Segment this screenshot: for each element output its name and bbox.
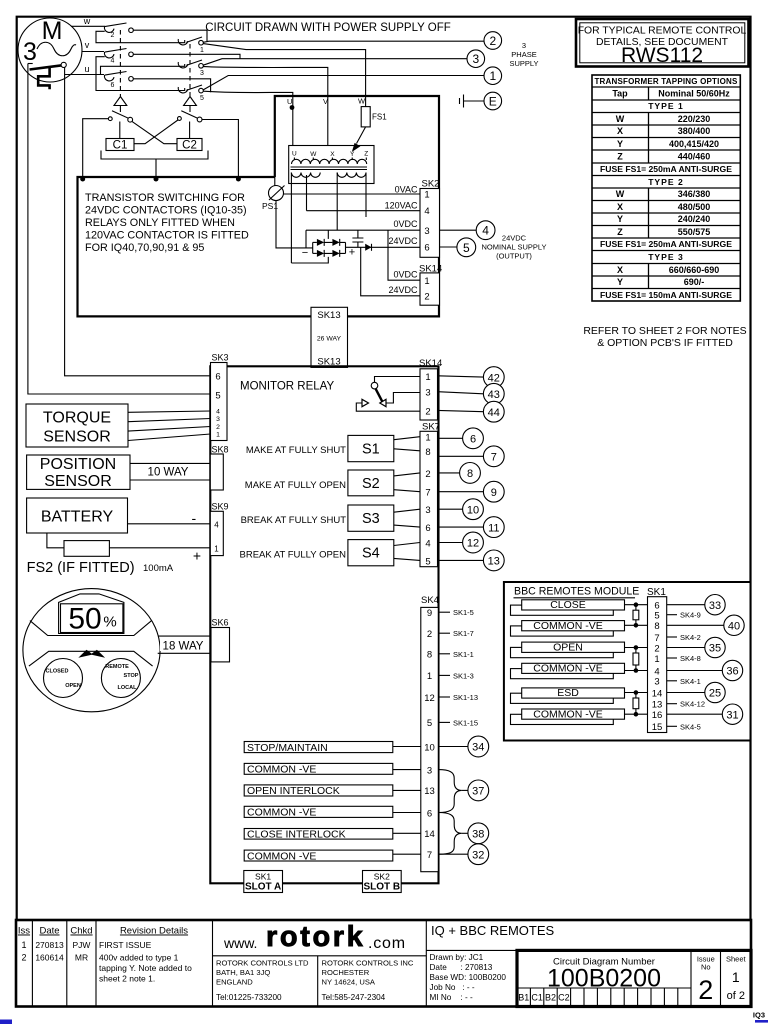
svg-text:TRANSFORMER TAPPING OPTIONS: TRANSFORMER TAPPING OPTIONS bbox=[594, 77, 737, 86]
svg-text:Job No : - -: Job No : - - bbox=[430, 983, 475, 992]
relay contact right bbox=[178, 117, 182, 121]
svg-text:SLOT A: SLOT A bbox=[245, 882, 281, 893]
svg-text:OPEN INTERLOCK: OPEN INTERLOCK bbox=[247, 785, 340, 797]
wire to terminal 10 bbox=[438, 508, 463, 510]
title block outer bbox=[16, 920, 751, 1007]
svg-text:(OUTPUT): (OUTPUT) bbox=[496, 252, 532, 261]
svg-text:400v added to type 1: 400v added to type 1 bbox=[99, 953, 179, 963]
junction dot U feed bbox=[290, 105, 295, 110]
fuse FS2 bbox=[64, 541, 109, 557]
svg-text:1: 1 bbox=[424, 190, 429, 201]
blue corner marks bbox=[0, 1020, 12, 1024]
svg-text:FS2 (IF FITTED): FS2 (IF FITTED) bbox=[27, 560, 135, 576]
svg-text:9: 9 bbox=[491, 487, 497, 499]
svg-text:Date : 270813: Date : 270813 bbox=[430, 963, 493, 972]
svg-text:6: 6 bbox=[215, 372, 220, 383]
svg-text:MAKE AT FULLY OPEN: MAKE AT FULLY OPEN bbox=[245, 480, 346, 491]
wire contact2 output jog bbox=[133, 30, 207, 41]
svg-text:34: 34 bbox=[472, 742, 484, 754]
bus under coils bbox=[101, 151, 208, 160]
wire switch1 to terminal 2 bbox=[203, 41, 484, 42]
svg-text:S4: S4 bbox=[362, 546, 380, 562]
transistor / power-supply box outline bbox=[78, 96, 440, 316]
svg-text:18 WAY: 18 WAY bbox=[163, 640, 204, 652]
svg-text:32: 32 bbox=[472, 849, 484, 861]
svg-text:2: 2 bbox=[654, 643, 659, 654]
svg-text:SK4-1: SK4-1 bbox=[680, 677, 701, 686]
10 way wires bbox=[130, 463, 210, 480]
svg-text:4: 4 bbox=[424, 206, 429, 217]
terminal circle 4 bbox=[476, 221, 495, 240]
wire to terminal 31 bbox=[667, 713, 723, 715]
svg-text:5: 5 bbox=[215, 391, 220, 402]
wire u phase bbox=[65, 74, 104, 76]
svg-text:8: 8 bbox=[654, 621, 659, 632]
svg-text:of 2: of 2 bbox=[727, 990, 745, 1002]
terminal circle 37 bbox=[468, 780, 489, 801]
contactor switch 3 bbox=[178, 62, 188, 68]
svg-text:400,415/420: 400,415/420 bbox=[669, 139, 719, 149]
svg-text:X: X bbox=[617, 202, 623, 212]
svg-text:50: 50 bbox=[68, 603, 101, 636]
svg-text:PHASE: PHASE bbox=[511, 50, 536, 59]
svg-text:10: 10 bbox=[424, 742, 435, 753]
svg-text:+: + bbox=[193, 548, 201, 564]
svg-text:8: 8 bbox=[467, 468, 473, 480]
svg-text:SK1-1: SK1-1 bbox=[453, 650, 474, 659]
svg-text:44: 44 bbox=[488, 407, 500, 419]
svg-text:+: + bbox=[349, 247, 355, 259]
contactor switch 6 bbox=[104, 75, 114, 81]
wire from lever circle to SK3 pin 6 bbox=[65, 68, 211, 376]
brace pins 3-6 bbox=[438, 770, 462, 813]
svg-text:COMMON -VE: COMMON -VE bbox=[533, 663, 602, 675]
svg-text:%: % bbox=[103, 614, 116, 631]
svg-text:PJW: PJW bbox=[73, 940, 91, 950]
svg-text:3: 3 bbox=[23, 38, 37, 66]
wire to terminal 12 bbox=[438, 542, 463, 544]
svg-text:10: 10 bbox=[467, 504, 479, 516]
svg-text:COMMON -VE: COMMON -VE bbox=[247, 850, 316, 862]
svg-text:SK4: SK4 bbox=[421, 595, 439, 606]
svg-text:Tel:585-247-2304: Tel:585-247-2304 bbox=[322, 993, 386, 1002]
wire contact6 output to transformer U bbox=[133, 79, 210, 92]
svg-text:7: 7 bbox=[425, 488, 430, 499]
actuator display dial ellipse bbox=[23, 589, 160, 712]
svg-text:IQ + BBC REMOTES: IQ + BBC REMOTES bbox=[431, 923, 554, 938]
svg-text:12: 12 bbox=[424, 693, 435, 704]
svg-text:FUSE FS1= 250mA ANTI-SURGE: FUSE FS1= 250mA ANTI-SURGE bbox=[600, 164, 732, 174]
svg-text:S2: S2 bbox=[362, 476, 380, 492]
FS1 fuse bbox=[361, 107, 370, 127]
svg-text:ENGLAND: ENGLAND bbox=[216, 978, 253, 987]
svg-text:B1: B1 bbox=[518, 993, 529, 1003]
bias resistor bbox=[635, 693, 637, 715]
svg-text:1: 1 bbox=[427, 671, 432, 682]
terminal circle 42 bbox=[483, 367, 504, 388]
wire switch5 to terminal 1 bbox=[203, 76, 484, 90]
svg-text:1: 1 bbox=[21, 940, 26, 950]
svg-text:X: X bbox=[617, 126, 623, 136]
svg-text:TYPE 3: TYPE 3 bbox=[648, 252, 684, 262]
terminal circle 7 bbox=[483, 446, 504, 467]
svg-text:24VDC: 24VDC bbox=[388, 285, 418, 295]
svg-text:4: 4 bbox=[216, 409, 220, 416]
wire SK2 pin6 to terminal 5 bbox=[440, 246, 457, 248]
terminal circle 6 bbox=[463, 428, 484, 449]
contactor switch 5 bbox=[178, 87, 188, 93]
bracket joining contacts 2-1 bbox=[96, 31, 185, 42]
RWS112 note box bbox=[576, 19, 749, 67]
svg-text:LOCAL: LOCAL bbox=[118, 685, 138, 691]
svg-text:550/575: 550/575 bbox=[678, 227, 711, 237]
svg-text:1: 1 bbox=[200, 47, 204, 54]
svg-text:SK1-5: SK1-5 bbox=[453, 608, 474, 617]
wire to terminal 13 bbox=[438, 559, 484, 561]
svg-text:Chkd: Chkd bbox=[70, 926, 92, 937]
svg-text:SK1-3: SK1-3 bbox=[453, 671, 474, 680]
svg-text:31: 31 bbox=[726, 709, 738, 721]
terminal circle 34 bbox=[468, 736, 489, 757]
wire 0VAC bbox=[284, 193, 421, 195]
svg-text:16: 16 bbox=[652, 710, 663, 721]
svg-text:CLOSED: CLOSED bbox=[46, 669, 69, 675]
svg-text:3: 3 bbox=[216, 416, 220, 423]
bracket joining contacts 6-3 bbox=[101, 64, 185, 75]
wire to terminal 11 bbox=[438, 526, 484, 528]
terminal circle 32 bbox=[468, 844, 489, 865]
svg-text:2: 2 bbox=[427, 629, 432, 640]
svg-text:BATTERY: BATTERY bbox=[41, 509, 114, 526]
svg-text:No: No bbox=[701, 963, 711, 972]
wire left relay to transistor box bbox=[83, 119, 109, 178]
blade contact arrow bbox=[380, 399, 386, 406]
svg-text:2: 2 bbox=[216, 424, 220, 431]
revision table columns bbox=[32, 920, 426, 1007]
svg-text:SK4-5: SK4-5 bbox=[680, 722, 701, 731]
svg-text:BREAK AT FULLY OPEN: BREAK AT FULLY OPEN bbox=[240, 550, 347, 561]
contactor switch 4 bbox=[104, 52, 114, 58]
svg-text:−: − bbox=[302, 247, 308, 259]
wire to terminal 35 bbox=[667, 647, 705, 649]
wire 0VDC to SK14 bbox=[388, 230, 420, 280]
terminal circle 31 bbox=[722, 704, 742, 724]
battery minus wire bbox=[128, 523, 211, 525]
svg-text:35: 35 bbox=[709, 643, 721, 655]
secondary winding group 2 bbox=[337, 173, 366, 178]
svg-text:346/380: 346/380 bbox=[678, 189, 711, 199]
svg-text:0VDC: 0VDC bbox=[393, 270, 418, 280]
svg-text:Base WD: 100B0200: Base WD: 100B0200 bbox=[430, 973, 507, 982]
svg-text:SK3: SK3 bbox=[212, 353, 229, 363]
svg-text:380/400: 380/400 bbox=[678, 126, 711, 136]
svg-text:Y: Y bbox=[617, 139, 623, 149]
svg-text:3: 3 bbox=[472, 52, 479, 66]
svg-text:SK6: SK6 bbox=[212, 618, 229, 628]
svg-text:S3: S3 bbox=[362, 511, 380, 527]
secondary leads bbox=[290, 173, 292, 264]
svg-text:36: 36 bbox=[726, 666, 738, 678]
svg-text:5: 5 bbox=[427, 718, 432, 729]
svg-text:MAKE AT FULLY SHUT: MAKE AT FULLY SHUT bbox=[246, 445, 346, 456]
svg-text:1: 1 bbox=[216, 432, 220, 439]
svg-text:SK2: SK2 bbox=[374, 872, 390, 882]
svg-text:7: 7 bbox=[654, 633, 659, 644]
svg-text:SK1-7: SK1-7 bbox=[453, 629, 474, 638]
flag triangle left bbox=[114, 97, 127, 106]
svg-text:SK14: SK14 bbox=[419, 358, 442, 369]
svg-text:OPEN: OPEN bbox=[65, 683, 81, 689]
wire right relay to transistor box bbox=[202, 120, 238, 178]
svg-text:13: 13 bbox=[424, 786, 435, 797]
tap selector arrow to Y bbox=[357, 127, 366, 144]
svg-text:24VDC: 24VDC bbox=[502, 234, 527, 243]
svg-text:W: W bbox=[358, 97, 366, 106]
svg-text:6: 6 bbox=[427, 808, 432, 819]
svg-text:14: 14 bbox=[424, 829, 435, 840]
svg-text:CLOSE INTERLOCK: CLOSE INTERLOCK bbox=[247, 829, 346, 841]
wire to terminal 7 bbox=[438, 455, 484, 457]
svg-text:240/240: 240/240 bbox=[678, 214, 711, 224]
terminal circle 25 bbox=[705, 682, 725, 702]
svg-text:1: 1 bbox=[732, 969, 740, 985]
input box COMMON -VE bbox=[244, 850, 393, 861]
svg-text:.com: .com bbox=[368, 935, 406, 952]
svg-text:Iss: Iss bbox=[18, 926, 30, 937]
svg-text:MR: MR bbox=[75, 953, 88, 963]
svg-text:sheet 2 note 1.: sheet 2 note 1. bbox=[99, 974, 155, 984]
svg-text:FOR IQ40,70,90,91 & 95: FOR IQ40,70,90,91 & 95 bbox=[85, 242, 204, 254]
connector SK1 bbox=[648, 597, 667, 733]
svg-text:6: 6 bbox=[425, 523, 430, 534]
svg-text:440/460: 440/460 bbox=[678, 152, 711, 162]
terminal circle 38 bbox=[468, 823, 489, 844]
svg-text:2: 2 bbox=[489, 34, 496, 48]
svg-text:Drawn by: JC1: Drawn by: JC1 bbox=[430, 953, 484, 962]
svg-text:3: 3 bbox=[522, 41, 526, 50]
position sensor box bbox=[27, 455, 130, 489]
svg-text:Z: Z bbox=[617, 227, 623, 237]
wire SK2 pin3 to terminal 4 bbox=[440, 229, 477, 231]
button box CLOSE bbox=[511, 605, 614, 615]
svg-text:SK4-2: SK4-2 bbox=[680, 633, 701, 642]
svg-text:Tap: Tap bbox=[612, 89, 628, 99]
svg-text:3: 3 bbox=[424, 226, 429, 237]
svg-text:Z: Z bbox=[364, 151, 368, 158]
svg-text:33: 33 bbox=[709, 600, 721, 612]
wire 0VDC top of bridge bbox=[306, 229, 420, 231]
bridge diode D2 bbox=[332, 239, 339, 246]
svg-text:3: 3 bbox=[425, 388, 430, 399]
coil C1 bbox=[106, 139, 134, 151]
secondary winding group 1 bbox=[291, 173, 320, 178]
svg-text:v: v bbox=[85, 40, 90, 50]
SK2 SLOT B bbox=[363, 871, 402, 893]
svg-text:Z: Z bbox=[617, 152, 623, 162]
svg-text:rotork: rotork bbox=[266, 921, 365, 953]
svg-text:25: 25 bbox=[709, 688, 721, 700]
bias resistor bbox=[635, 605, 637, 626]
svg-text:FUSE FS1= 250mA ANTI-SURGE: FUSE FS1= 250mA ANTI-SURGE bbox=[600, 239, 732, 249]
svg-text:RWS112: RWS112 bbox=[621, 44, 703, 67]
cross wire left contact to C2 bbox=[132, 121, 177, 143]
terminal circle 12 bbox=[463, 532, 484, 553]
svg-text:V: V bbox=[323, 97, 328, 106]
wire w phase bbox=[71, 25, 105, 27]
svg-text:SK1-13: SK1-13 bbox=[453, 693, 478, 702]
wires to terminals 42 43 44 bbox=[438, 376, 484, 412]
terminal circle E bbox=[484, 92, 502, 110]
bridge rectifier rails bbox=[313, 242, 346, 253]
svg-text:24VDC: 24VDC bbox=[388, 236, 418, 246]
svg-text:OPEN: OPEN bbox=[553, 642, 583, 654]
svg-text:8: 8 bbox=[425, 447, 430, 458]
svg-text:6: 6 bbox=[470, 434, 476, 446]
wire to terminal 25 bbox=[667, 692, 705, 694]
SK1 pin 15 stub SK4-5 bbox=[667, 725, 677, 727]
svg-text:Tel:01225-733200: Tel:01225-733200 bbox=[216, 993, 282, 1002]
svg-text:& OPTION PCB'S IF FITTED: & OPTION PCB'S IF FITTED bbox=[597, 337, 733, 349]
svg-text:RELAYS ONLY FITTED WHEN: RELAYS ONLY FITTED WHEN bbox=[85, 217, 235, 229]
svg-text:TYPE 2: TYPE 2 bbox=[648, 177, 684, 187]
terminal circle 9 bbox=[483, 481, 504, 502]
svg-text:660/660-690: 660/660-690 bbox=[669, 265, 720, 275]
input box COMMON -VE bbox=[244, 763, 393, 774]
terminal circle 11 bbox=[483, 517, 504, 538]
svg-text:CLOSE: CLOSE bbox=[550, 599, 586, 611]
battery plus wire through FS2 bbox=[47, 533, 210, 548]
relay contact left (C-coil switch) bbox=[108, 117, 112, 121]
svg-text:CIRCUIT DRAWN WITH POWER SUPPL: CIRCUIT DRAWN WITH POWER SUPPLY OFF bbox=[205, 22, 451, 34]
svg-text:270813: 270813 bbox=[35, 940, 64, 950]
svg-text:NOMINAL SUPPLY: NOMINAL SUPPLY bbox=[481, 243, 546, 252]
battery box bbox=[27, 498, 128, 533]
wire 120VAC bbox=[307, 210, 421, 212]
svg-text:SENSOR: SENSOR bbox=[43, 429, 111, 446]
transformer tapping options table bbox=[592, 75, 740, 301]
terminal circle 36 bbox=[722, 660, 742, 680]
knob remote/stop/local bbox=[101, 659, 140, 698]
torque sensor box bbox=[26, 404, 128, 447]
input box STOP/MAINTAIN bbox=[244, 742, 393, 753]
button box ESD bbox=[511, 693, 614, 703]
svg-text:IQ3: IQ3 bbox=[753, 1011, 765, 1020]
SK1 pin 13 stub SK4-12 bbox=[667, 703, 677, 705]
svg-text:Date: Date bbox=[39, 926, 59, 937]
motor lever / gearbox symbol bbox=[28, 63, 33, 65]
svg-text:u: u bbox=[84, 64, 89, 74]
wire v phase bbox=[82, 51, 104, 53]
svg-text:9: 9 bbox=[427, 608, 432, 619]
svg-text:SK2: SK2 bbox=[422, 179, 440, 190]
svg-text:0VAC: 0VAC bbox=[395, 185, 418, 195]
svg-text:100mA: 100mA bbox=[143, 563, 174, 574]
wire to terminal 33 bbox=[667, 604, 705, 606]
lcd window bbox=[61, 604, 123, 633]
svg-text:3: 3 bbox=[427, 765, 432, 776]
svg-text:ESD: ESD bbox=[557, 687, 579, 699]
wire 24VDC to SK14 bbox=[361, 247, 420, 295]
svg-text:1: 1 bbox=[425, 372, 430, 383]
link switch to C1 bbox=[119, 122, 121, 139]
common arrow bbox=[362, 399, 369, 406]
svg-text:120VAC: 120VAC bbox=[385, 201, 418, 211]
wire to terminal 8 bbox=[438, 472, 460, 474]
svg-text:40: 40 bbox=[728, 621, 740, 633]
svg-text:C1: C1 bbox=[113, 139, 128, 151]
brace pins 6-7 bbox=[438, 813, 462, 855]
svg-text:2: 2 bbox=[425, 406, 430, 417]
svg-text:MI No : - -: MI No : - - bbox=[430, 993, 473, 1002]
svg-text:COMMON -VE: COMMON -VE bbox=[247, 807, 316, 819]
svg-text:REFER TO SHEET 2 FOR NOTES: REFER TO SHEET 2 FOR NOTES bbox=[583, 325, 746, 337]
svg-text:2: 2 bbox=[425, 469, 430, 480]
bridge minus to PS1 bbox=[276, 201, 313, 248]
svg-text:SK4-9: SK4-9 bbox=[680, 611, 701, 620]
terminal circle 8 bbox=[460, 463, 481, 484]
wire 24VDC bbox=[346, 246, 421, 248]
svg-text:NY 14624, USA: NY 14624, USA bbox=[322, 978, 376, 987]
svg-text:3: 3 bbox=[425, 505, 430, 516]
svg-text:COMMON -VE: COMMON -VE bbox=[533, 620, 602, 632]
cross wire right pivot to C1 bbox=[134, 120, 178, 144]
svg-text:2: 2 bbox=[111, 32, 115, 39]
svg-text:8: 8 bbox=[427, 650, 432, 661]
motor M3 circle bbox=[18, 18, 82, 82]
svg-text:M: M bbox=[42, 17, 63, 45]
terminal circle 44 bbox=[483, 401, 504, 422]
svg-text:5: 5 bbox=[654, 611, 659, 622]
svg-text:COMMON -VE: COMMON -VE bbox=[247, 764, 316, 776]
svg-text:POSITION: POSITION bbox=[40, 456, 116, 473]
svg-text:13: 13 bbox=[652, 700, 663, 711]
terminal circle 43 bbox=[483, 383, 504, 404]
svg-text:SK4-8: SK4-8 bbox=[680, 654, 701, 663]
earth symbol bbox=[460, 95, 464, 108]
svg-text:12: 12 bbox=[467, 538, 479, 550]
svg-text:Sheet: Sheet bbox=[726, 955, 747, 964]
svg-text:FUSE FS1= 150mA ANTI-SURGE: FUSE FS1= 150mA ANTI-SURGE bbox=[600, 290, 732, 300]
svg-text:BATH, BA1 3JQ: BATH, BA1 3JQ bbox=[216, 968, 270, 977]
wire to terminal 6 bbox=[438, 437, 463, 439]
terminal circle 1 bbox=[484, 67, 502, 85]
svg-text:480/500: 480/500 bbox=[678, 202, 711, 212]
smoothing capacitor bbox=[357, 230, 359, 247]
svg-text:Y: Y bbox=[350, 151, 355, 158]
display housing pentagon bbox=[59, 594, 124, 634]
PS1 device bbox=[269, 186, 284, 201]
svg-text:1: 1 bbox=[489, 69, 496, 83]
SK1 pin 7 stub SK4-2 bbox=[667, 636, 677, 638]
SK1 pin 1 stub SK4-8 bbox=[667, 657, 677, 659]
svg-text:W: W bbox=[616, 189, 625, 199]
wire switch3 to terminal 3 bbox=[203, 59, 467, 65]
svg-text:SLOT B: SLOT B bbox=[363, 882, 400, 893]
svg-text:690/-: 690/- bbox=[684, 277, 705, 287]
svg-text:COMMON -VE: COMMON -VE bbox=[533, 708, 602, 720]
svg-text:TYPE 1: TYPE 1 bbox=[648, 101, 684, 111]
bracket joining contacts 4-5 bbox=[96, 57, 185, 91]
transformer core bbox=[291, 167, 368, 170]
contactor switch 1 bbox=[178, 39, 188, 45]
dashed mechanical link right bbox=[189, 44, 191, 96]
wire switch1 branch to FS1/W tap bbox=[203, 44, 365, 107]
bridge AC input 1 bbox=[327, 230, 329, 239]
junction dots on transistor box edge bbox=[80, 177, 85, 182]
monitor relay pivot bbox=[371, 382, 378, 389]
svg-text:Nominal 50/60Hz: Nominal 50/60Hz bbox=[658, 89, 730, 99]
svg-text:13: 13 bbox=[488, 556, 500, 568]
